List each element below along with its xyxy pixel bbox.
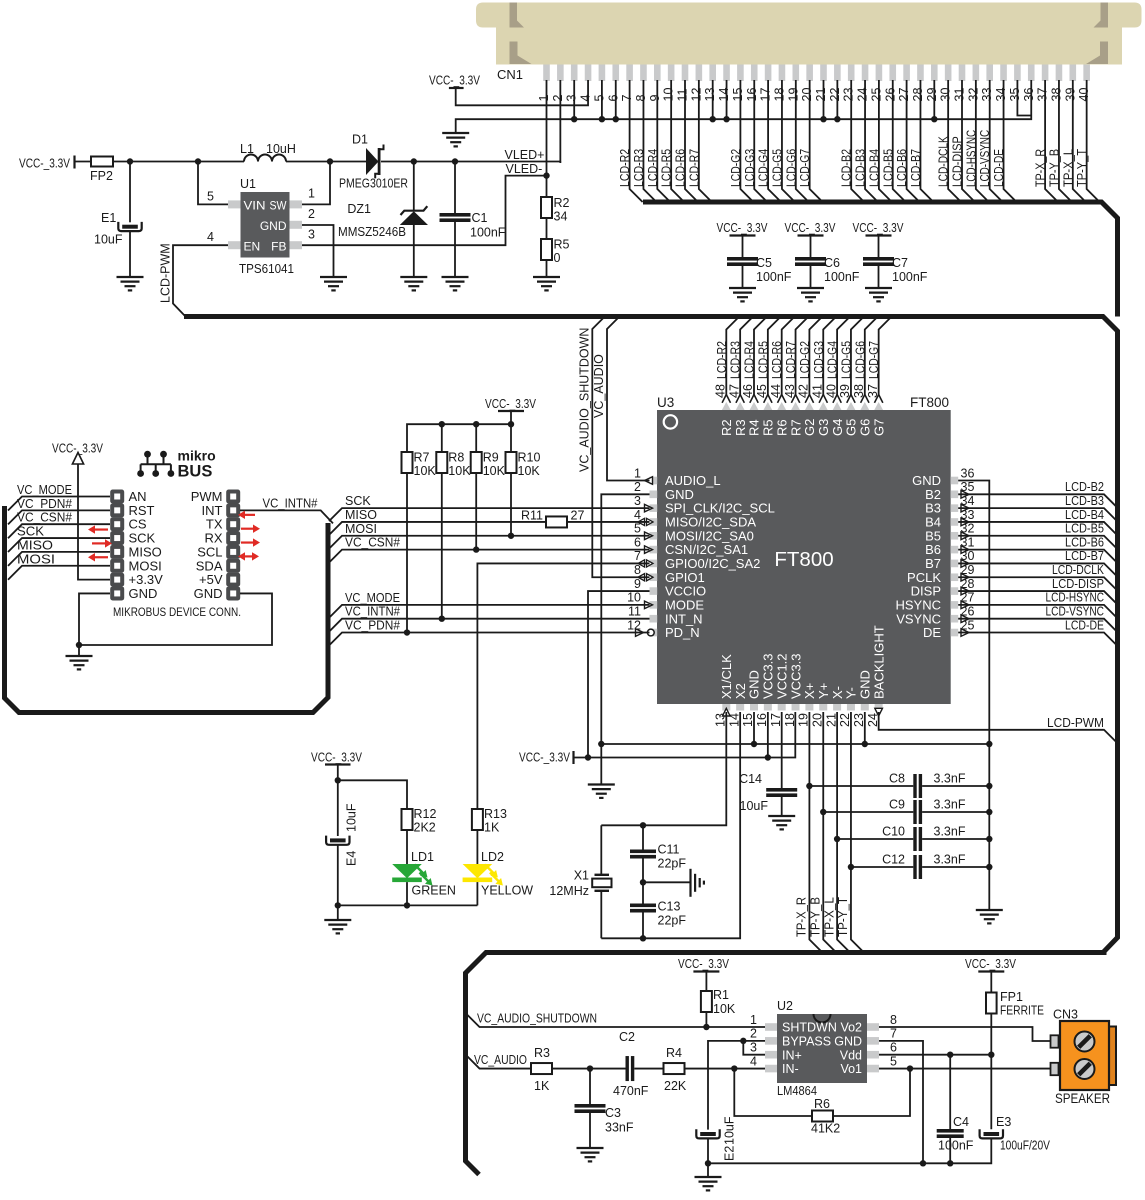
- wire R5 to ground: [546, 260, 548, 277]
- svg-text:40: 40: [1077, 88, 1091, 102]
- svg-text:LCD-G5: LCD-G5: [839, 341, 853, 379]
- svg-text:VLED-: VLED-: [506, 162, 543, 176]
- ground under C3: [577, 1147, 604, 1149]
- junction: [820, 116, 826, 122]
- svg-text:30: 30: [939, 88, 953, 102]
- wire U1 pin2 GND: [302, 225, 334, 277]
- svg-text:7: 7: [634, 549, 641, 563]
- wire CN1 pin5 to ground bus: [601, 80, 603, 119]
- junction pin7 gnd: [920, 1160, 926, 1166]
- svg-text:YELLOW: YELLOW: [481, 884, 533, 898]
- junction R10 rail: [508, 421, 514, 427]
- wire R3 to C2: [552, 1068, 626, 1070]
- wire mikroBUS SCK: [8, 538, 110, 552]
- svg-text:R1: R1: [713, 988, 729, 1002]
- svg-text:LCD-G4: LCD-G4: [826, 341, 840, 379]
- svg-text:7: 7: [890, 1027, 897, 1041]
- junction LD1 bottom: [404, 902, 410, 908]
- svg-text:RST: RST: [129, 503, 155, 518]
- svg-text:B4: B4: [925, 515, 941, 530]
- resistor R2 34: [541, 197, 552, 218]
- wire U3 pin36 GND: [958, 481, 989, 911]
- svg-text:R4: R4: [666, 1046, 682, 1060]
- wire VC_CSN# to U3: [329, 550, 650, 563]
- wire GND stem: [600, 744, 602, 785]
- svg-text:21: 21: [814, 88, 828, 102]
- capacitor C4 100nF: [949, 1055, 951, 1129]
- wire mikroBUS GND left: [79, 593, 110, 645]
- wire U3 top pin 47 net LCD-R3: [740, 317, 753, 396]
- svg-text:R7: R7: [414, 451, 430, 465]
- U3 pin arrows: [636, 477, 970, 716]
- svg-text:MISO: MISO: [17, 538, 53, 552]
- svg-text:23: 23: [842, 88, 856, 102]
- wire CN1 pin15 net LCD-G2: [740, 80, 753, 202]
- ground rotated at crystal: [691, 869, 704, 897]
- wire U3 top pin 37 net LCD-G7: [879, 317, 892, 396]
- wire CN1 pin16 net LCD-G3: [754, 80, 767, 202]
- svg-text:U1: U1: [240, 177, 256, 191]
- wire CN1 pin18 net LCD-G5: [782, 80, 795, 202]
- wire VCC to +3.3V pin: [78, 464, 110, 580]
- LED LD1 GREEN: [392, 830, 432, 905]
- wire CN1 pin34 net LCD-DE: [1004, 80, 1017, 202]
- capacitor C12 3.3nF: [851, 866, 913, 868]
- svg-text:TP-Y_T: TP-Y_T: [836, 897, 850, 937]
- svg-text:LCD-G2: LCD-G2: [798, 341, 812, 379]
- svg-text:MISO: MISO: [345, 508, 377, 522]
- svg-text:LCD-B4: LCD-B4: [867, 149, 881, 187]
- wire U3 top pin 40 net LCD-G4: [837, 317, 850, 396]
- wire CN1 pin11 net LCD-R6: [685, 80, 698, 202]
- wire CN1 pin20 net LCD-G7: [810, 80, 823, 202]
- capacitor C7 100nF: [878, 236, 880, 258]
- wire U3 top pin 48 net LCD-R2: [726, 317, 739, 396]
- svg-text:12MHz: 12MHz: [549, 884, 589, 898]
- U3 right pin names: [895, 473, 941, 640]
- svg-text:1: 1: [750, 1013, 757, 1027]
- svg-text:X+: X+: [802, 683, 817, 699]
- svg-text:G7: G7: [871, 419, 886, 436]
- capacitor E3 100uF/20V: [990, 1055, 992, 1129]
- svg-text:+5V: +5V: [199, 572, 223, 587]
- junction pin2/pin3: [740, 1038, 746, 1044]
- wire U3 pin21 touch: [836, 712, 838, 839]
- junction R8 rail: [439, 421, 445, 427]
- svg-text:VC_MODE: VC_MODE: [345, 591, 400, 605]
- header mikroBUS right column: [226, 490, 240, 601]
- svg-text:34: 34: [554, 210, 568, 224]
- svg-text:X1/CLK: X1/CLK: [719, 654, 734, 699]
- svg-text:C3: C3: [605, 1106, 621, 1120]
- junction C11 top: [640, 822, 646, 828]
- svg-text:2: 2: [750, 1027, 757, 1041]
- svg-text:VCC-_3.3V: VCC-_3.3V: [853, 221, 905, 235]
- svg-text:LCD-B2: LCD-B2: [1065, 480, 1104, 494]
- svg-text:VC_MODE: VC_MODE: [17, 483, 72, 497]
- svg-text:U2: U2: [777, 999, 793, 1013]
- svg-text:27: 27: [897, 88, 911, 102]
- svg-text:R4: R4: [747, 419, 762, 436]
- wire VC_AUDIO to U3 pin1: [607, 317, 650, 481]
- wire VCC to FP2: [75, 161, 92, 163]
- resistor R9 10K: [475, 424, 477, 452]
- svg-text:LCD-R4: LCD-R4: [646, 149, 660, 187]
- U3 bottom pin names: [719, 625, 886, 699]
- svg-text:MOSI/I2C_SA0: MOSI/I2C_SA0: [665, 528, 754, 543]
- junction: [613, 116, 619, 122]
- wire VC_MODE to U3: [329, 605, 650, 618]
- svg-text:LCD-R6: LCD-R6: [674, 149, 688, 187]
- svg-text:LCD-R7: LCD-R7: [784, 341, 798, 379]
- svg-text:SCK: SCK: [129, 531, 156, 546]
- junction C9: [820, 809, 826, 815]
- svg-text:14: 14: [717, 88, 731, 102]
- wire U3 top pin 43 net LCD-R7: [796, 317, 809, 396]
- svg-text:R10: R10: [518, 451, 541, 465]
- wire VCC to E4/R12: [337, 765, 339, 781]
- svg-text:3.3nF: 3.3nF: [934, 772, 966, 786]
- svg-text:VC_PDN#: VC_PDN#: [345, 619, 400, 633]
- svg-text:GND: GND: [665, 487, 694, 502]
- svg-text:12: 12: [689, 88, 703, 102]
- svg-text:3: 3: [634, 494, 641, 508]
- wire MISO to U3: [329, 522, 546, 535]
- svg-text:VCCIO: VCCIO: [665, 584, 706, 599]
- svg-text:100nF: 100nF: [892, 270, 928, 284]
- wire VLED+ up to CN1 pin2: [559, 162, 561, 164]
- svg-text:LCD-PWM: LCD-PWM: [159, 243, 173, 303]
- resistor R11 27: [546, 516, 567, 527]
- wire U3 pin13 X1: [601, 712, 726, 825]
- svg-text:X-: X-: [830, 686, 845, 699]
- svg-text:LCD-B6: LCD-B6: [895, 149, 909, 187]
- wire U3 pin29 net LCD-DCLK: [958, 577, 1117, 591]
- IC U3 FT800 body: [650, 402, 959, 711]
- U3 right pin numbers: [961, 466, 975, 632]
- wire U3 pin14 X2: [601, 712, 740, 938]
- svg-text:GND: GND: [747, 670, 762, 699]
- svg-text:3.3nF: 3.3nF: [934, 798, 966, 812]
- wire CN1 pin40 net TP-Y_T: [1087, 80, 1100, 202]
- junction: [439, 616, 445, 622]
- junction C8: [806, 783, 812, 789]
- wire R9 to net: [475, 473, 477, 550]
- svg-text:10uH: 10uH: [266, 142, 296, 156]
- wire U3 pin2 GND: [601, 494, 649, 744]
- wire U3 pin26 net LCD-VSYNC: [958, 619, 1117, 633]
- svg-text:R6: R6: [814, 1097, 830, 1111]
- svg-text:18: 18: [772, 88, 786, 102]
- svg-text:17: 17: [759, 88, 773, 102]
- U3 top pin numbers: [714, 384, 880, 398]
- svg-text:100nF: 100nF: [824, 270, 860, 284]
- svg-text:BACKLIGHT: BACKLIGHT: [871, 625, 886, 699]
- svg-text:22K: 22K: [664, 1079, 687, 1093]
- capacitor C2 470nF: [626, 1056, 629, 1081]
- svg-text:TP-X_R: TP-X_R: [1034, 149, 1048, 187]
- wire to corner ground: [643, 881, 691, 883]
- ground under DZ1: [400, 276, 427, 278]
- wire U1 pin5 VIN: [198, 162, 228, 205]
- svg-text:VCC-_3.3V: VCC-_3.3V: [678, 957, 730, 971]
- LED LD2 YELLOW: [463, 830, 503, 905]
- svg-text:VCC-_3.3V: VCC-_3.3V: [965, 957, 1017, 971]
- svg-text:VCC-_3.3V: VCC-_3.3V: [717, 221, 769, 235]
- svg-text:VC_AUDIO_SHUTDOWN: VC_AUDIO_SHUTDOWN: [578, 328, 592, 472]
- svg-text:PMEG3010ER: PMEG3010ER: [339, 177, 408, 191]
- wire R7 to net: [406, 473, 408, 633]
- svg-text:LCD-R4: LCD-R4: [743, 341, 757, 379]
- svg-text:GND: GND: [834, 1034, 862, 1048]
- svg-text:MIKROBUS DEVICE CONN.: MIKROBUS DEVICE CONN.: [113, 605, 241, 619]
- wire mikroBUS MOSI: [8, 566, 110, 580]
- svg-text:LD2: LD2: [481, 850, 504, 864]
- svg-text:4: 4: [634, 508, 641, 522]
- svg-text:R7: R7: [788, 419, 803, 436]
- wire mikroBUS GND right: [79, 593, 272, 645]
- wire U2 pin2 BYPASS: [708, 1041, 765, 1130]
- wire CN1 pin24 net LCD-B3: [865, 80, 878, 202]
- wire CN1 pin8 net LCD-R3: [643, 80, 656, 202]
- svg-text:25: 25: [869, 88, 883, 102]
- junction C10: [834, 836, 840, 842]
- junction: [931, 116, 937, 122]
- svg-text:FT800: FT800: [774, 548, 833, 571]
- svg-text:MODE: MODE: [665, 597, 704, 612]
- wire U3 pin22 touch: [850, 712, 852, 867]
- svg-text:D1: D1: [352, 133, 368, 147]
- svg-text:LCD-DISP: LCD-DISP: [951, 136, 965, 187]
- svg-text:20: 20: [800, 88, 814, 102]
- wire D1 to VLED+: [381, 161, 560, 163]
- svg-text:8: 8: [634, 95, 648, 102]
- svg-text:GND: GND: [858, 670, 873, 699]
- svg-text:B7: B7: [925, 556, 941, 571]
- wire U1 pin4 EN LCD-PWM: [173, 245, 228, 316]
- svg-text:LCD-G4: LCD-G4: [757, 149, 771, 187]
- wire GND stem: [78, 645, 80, 656]
- wire CN1 pin30 net LCD-DCLK: [948, 80, 961, 202]
- svg-text:R3: R3: [733, 419, 748, 436]
- junction: [404, 629, 410, 635]
- svg-text:LCD-B4: LCD-B4: [1065, 508, 1104, 522]
- wire U3 pin32 net LCD-B5: [958, 536, 1117, 550]
- svg-text:2K2: 2K2: [414, 821, 436, 835]
- connector CN1 pins 1-40: [543, 65, 1090, 82]
- junction pin16: [765, 754, 771, 760]
- svg-text:6: 6: [634, 535, 641, 549]
- svg-text:LCD-R2: LCD-R2: [618, 149, 632, 187]
- svg-text:LCD-B2: LCD-B2: [840, 149, 854, 187]
- wire CN1 pin23 net LCD-B2: [851, 80, 864, 202]
- svg-text:SCK: SCK: [345, 494, 371, 508]
- svg-text:LCD-G3: LCD-G3: [812, 341, 826, 379]
- svg-text:VC_PDN#: VC_PDN#: [17, 497, 72, 511]
- svg-text:RX: RX: [204, 531, 222, 546]
- ferrite FP1: [990, 972, 992, 993]
- svg-text:VCC1.2: VCC1.2: [774, 653, 789, 699]
- wire CN1 pin6 to ground bus: [615, 80, 617, 119]
- svg-text:TPS61041: TPS61041: [239, 262, 294, 276]
- svg-text:TP-X_L: TP-X_L: [1061, 149, 1075, 187]
- junction C1: [452, 158, 458, 164]
- wire FP2 to L1: [113, 161, 244, 163]
- svg-text:INT_N: INT_N: [665, 611, 703, 626]
- wire R8 to net: [441, 473, 443, 619]
- ground audio: [707, 1163, 709, 1177]
- svg-text:E1: E1: [101, 211, 116, 225]
- inductor L1 10uH: [244, 155, 286, 162]
- svg-text:CN3: CN3: [1053, 1008, 1078, 1022]
- svg-text:SHTDWN: SHTDWN: [782, 1021, 837, 1035]
- svg-text:7: 7: [620, 95, 634, 102]
- svg-text:C12: C12: [882, 853, 905, 867]
- svg-text:TP-Y_B: TP-Y_B: [1047, 149, 1061, 187]
- svg-text:MOSI: MOSI: [345, 522, 377, 536]
- svg-text:HSYNC: HSYNC: [895, 597, 941, 612]
- svg-text:GPIO0/I2C_SA2: GPIO0/I2C_SA2: [665, 556, 760, 571]
- wire VC_INTN# to U3: [329, 619, 650, 632]
- wire U2 pin3 IN+: [743, 1041, 765, 1055]
- wire U3 top pin 46 net LCD-R4: [754, 317, 767, 396]
- svg-text:AUDIO_L: AUDIO_L: [665, 473, 721, 488]
- svg-text:B3: B3: [925, 501, 941, 516]
- svg-text:Y+: Y+: [816, 683, 831, 699]
- connector CN3 SPEAKER: [1051, 1021, 1117, 1090]
- U3 bottom pin numbers: [714, 713, 880, 727]
- wire CN1 pin17 net LCD-G4: [768, 80, 781, 202]
- wire SW node to U1 pin1: [302, 162, 330, 205]
- wire CN1 pin13 to ground bus: [712, 80, 714, 119]
- wire CN1 pin9 net LCD-R4: [657, 80, 670, 202]
- junction right: [986, 836, 992, 842]
- junction: [834, 116, 840, 122]
- wire audio GND rail: [708, 1139, 991, 1164]
- wire CN1 pin39 net TP-X_L: [1073, 80, 1086, 202]
- svg-text:SPEAKER: SPEAKER: [1055, 1091, 1110, 1106]
- svg-text:R2: R2: [554, 196, 570, 210]
- wire U3 pin35 net LCD-B2: [958, 494, 1117, 508]
- junction C3: [587, 1065, 593, 1071]
- svg-text:MOSI: MOSI: [129, 558, 162, 573]
- wire R12 top: [338, 780, 407, 809]
- svg-text:E4: E4: [345, 851, 359, 866]
- bus below CN1 labels: [643, 202, 1118, 317]
- svg-text:E2: E2: [723, 1146, 737, 1161]
- svg-text:C11: C11: [658, 843, 680, 857]
- svg-text:22pF: 22pF: [658, 857, 687, 871]
- svg-text:U3: U3: [657, 395, 674, 410]
- wire U3 top pin 38 net LCD-G6: [865, 317, 878, 396]
- wire CN1 pin22 to ground bus: [836, 80, 838, 119]
- svg-text:INT: INT: [202, 503, 223, 518]
- junction: [571, 116, 577, 122]
- svg-text:LCD-G6: LCD-G6: [853, 341, 867, 379]
- svg-text:34: 34: [994, 88, 1008, 102]
- header pin names right: [191, 489, 223, 601]
- svg-text:LCD-R2: LCD-R2: [715, 341, 729, 379]
- svg-text:1: 1: [634, 466, 641, 480]
- wire FP1 to Vdd: [990, 1014, 992, 1055]
- junction right: [986, 864, 992, 870]
- ground under U1: [320, 276, 347, 278]
- wire mikroBUS VC_PDN#: [8, 510, 110, 524]
- junction C13 bottom: [640, 935, 646, 941]
- svg-text:LCD-HSYNC: LCD-HSYNC: [1046, 591, 1105, 605]
- ground at touch caps: [976, 909, 1003, 911]
- svg-text:1K: 1K: [534, 1079, 550, 1093]
- junction E4 bottom: [335, 902, 341, 908]
- wire VC_AUDIO_SHUTDOWN to U3 pin8: [592, 317, 649, 578]
- svg-text:Vo2: Vo2: [840, 1021, 862, 1035]
- svg-text:VC_INTN#: VC_INTN#: [345, 605, 400, 619]
- capacitor C9 3.3nF: [823, 811, 913, 813]
- svg-text:3: 3: [750, 1041, 757, 1055]
- svg-text:FT800: FT800: [910, 395, 949, 410]
- svg-text:TP-Y_B: TP-Y_B: [808, 897, 822, 937]
- wire CN1 pin7 net LCD-R2: [630, 80, 643, 202]
- svg-text:VCC-_3.3V: VCC-_3.3V: [519, 751, 571, 765]
- resistor R3 1K: [531, 1063, 552, 1074]
- wire CN1 pin19 net LCD-G6: [796, 80, 809, 202]
- svg-text:VC_AUDIO: VC_AUDIO: [592, 354, 606, 418]
- svg-text:B2: B2: [925, 487, 941, 502]
- junction: [473, 546, 479, 552]
- svg-text:LCD-B7: LCD-B7: [1065, 549, 1104, 563]
- svg-text:LCD-G6: LCD-G6: [784, 149, 798, 187]
- svg-text:R2: R2: [719, 419, 734, 436]
- ground at CN1 bus: [442, 132, 469, 134]
- svg-text:FP1: FP1: [1000, 990, 1023, 1004]
- svg-text:100nF: 100nF: [470, 226, 506, 240]
- wire CN1 pin31 net LCD-DISP: [962, 80, 975, 202]
- wire CN1 pin1 VLED- rail: [546, 80, 548, 197]
- zener DZ1 MMSZ5246B: [400, 162, 428, 278]
- svg-text:0: 0: [554, 251, 561, 265]
- svg-text:VC_INTN#: VC_INTN#: [263, 497, 318, 511]
- svg-text:29: 29: [925, 88, 939, 102]
- junction GND rail right: [986, 741, 992, 747]
- svg-text:C5: C5: [756, 256, 772, 270]
- svg-text:+3.3V: +3.3V: [129, 572, 164, 587]
- svg-text:15: 15: [731, 88, 745, 102]
- wire LED ground rail: [338, 904, 478, 906]
- bus outline main section: [184, 317, 1118, 1175]
- svg-text:22pF: 22pF: [658, 914, 687, 928]
- wire U3 pin30 net LCD-B7: [958, 563, 1117, 577]
- junction mid crystal: [640, 879, 646, 885]
- svg-text:CSN/I2C_SA1: CSN/I2C_SA1: [665, 542, 748, 557]
- wire U3 pin24 BACKLIGHT LCD-PWM: [879, 712, 1118, 743]
- svg-text:LCD-B5: LCD-B5: [1065, 522, 1104, 536]
- wire CN1 pin28 net LCD-B7: [920, 80, 933, 202]
- wire CN1 pin25 net LCD-B4: [879, 80, 892, 202]
- svg-text:GND: GND: [912, 473, 941, 488]
- svg-text:LCD-B6: LCD-B6: [1065, 535, 1104, 549]
- svg-text:CN1: CN1: [497, 67, 523, 82]
- svg-text:IN-: IN-: [782, 1062, 799, 1076]
- svg-text:FP2: FP2: [90, 169, 113, 183]
- svg-text:22: 22: [828, 88, 842, 102]
- svg-text:LCD-DE: LCD-DE: [1065, 618, 1104, 632]
- wire TP-Y_T to bus: [851, 867, 864, 953]
- svg-text:LCD-DE: LCD-DE: [992, 149, 1006, 187]
- svg-text:LCD-G7: LCD-G7: [867, 341, 881, 379]
- junction VLED- R2: [543, 172, 549, 178]
- svg-text:27: 27: [571, 509, 585, 523]
- junction SW node: [327, 158, 333, 164]
